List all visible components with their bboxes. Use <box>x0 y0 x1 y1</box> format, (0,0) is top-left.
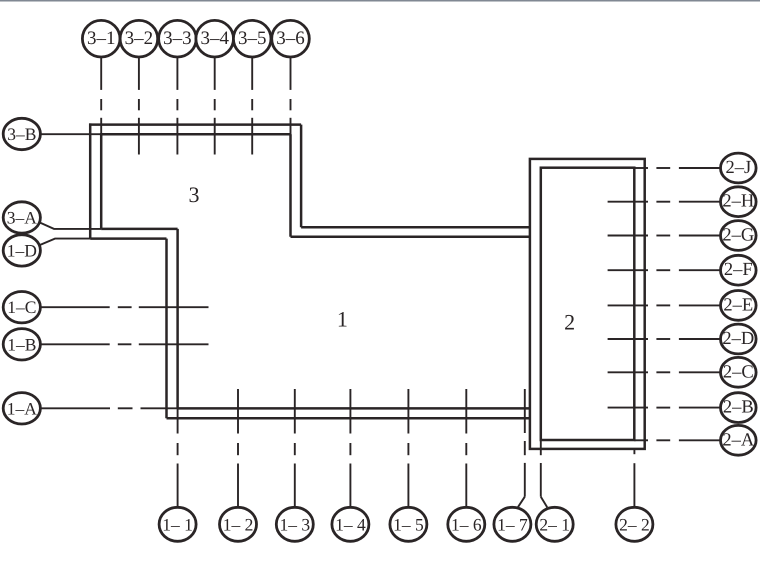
wall: region3 inner top <box>100 133 291 136</box>
svg-text:2–B: 2–B <box>723 398 754 418</box>
svg-text:2–C: 2–C <box>723 362 754 382</box>
svg-text:2–F: 2–F <box>724 260 753 280</box>
wall: step lower line <box>90 237 166 240</box>
axis bubble 1-B <box>3 329 40 360</box>
svg-text:3–B: 3–B <box>7 124 36 144</box>
svg-text:2–D: 2–D <box>722 329 754 349</box>
svg-text:3–2: 3–2 <box>125 28 154 49</box>
axis bubble 1-A <box>3 393 40 424</box>
axis line 2-A <box>634 439 648 441</box>
axis bubble 3-3 <box>159 20 197 57</box>
axis line 1-1 <box>177 408 179 434</box>
axis bubble 2-G <box>721 221 757 251</box>
axis line 3-3 <box>176 57 178 90</box>
svg-text:1: 1 <box>337 307 348 332</box>
svg-text:2– 1: 2– 1 <box>539 514 570 534</box>
axis bubble 3-4 <box>196 20 234 57</box>
axis bubble 2-A <box>721 425 757 455</box>
wall: region2 inner rectangle <box>541 168 635 440</box>
axis line 2-J <box>634 167 648 169</box>
axis line 3-6 <box>290 57 292 90</box>
svg-text:1– 1: 1– 1 <box>162 514 193 534</box>
axis line 2-D <box>608 338 648 340</box>
axis bubble 2-E <box>721 291 757 321</box>
svg-text:2–H: 2–H <box>722 192 754 212</box>
axis line 1-4 <box>349 389 351 434</box>
svg-text:1–D: 1–D <box>7 240 37 260</box>
svg-text:3–A: 3–A <box>7 208 38 228</box>
axis bubble 1-6 <box>448 507 485 541</box>
axis bubble 2-2 <box>616 507 653 541</box>
wall: region1 bottom lower <box>167 417 530 420</box>
svg-text:1– 5: 1– 5 <box>393 514 424 534</box>
svg-text:3–6: 3–6 <box>276 28 305 49</box>
wall: region1 left outer <box>165 239 168 419</box>
svg-text:1– 4: 1– 4 <box>335 514 366 534</box>
top gray bar <box>0 0 760 2</box>
wall: region3 right outer <box>300 125 303 228</box>
axis line 2-F <box>608 269 648 271</box>
axis bubble 3-5 <box>233 20 271 57</box>
axis line 1-5 <box>407 389 409 434</box>
axis bubble 3-6 <box>272 20 310 57</box>
axis line 2-G <box>608 235 648 237</box>
svg-text:1– 2: 1– 2 <box>223 514 254 534</box>
wall: region3 inner left <box>100 133 103 229</box>
axis line 3-2 <box>138 57 140 90</box>
axis bubble 2-1 <box>536 507 573 541</box>
svg-text:2: 2 <box>564 310 575 335</box>
axis leader 3-A <box>38 222 102 229</box>
axis line 3-B <box>40 133 101 135</box>
svg-text:2– 2: 2– 2 <box>619 514 650 534</box>
wall: region3 outer top <box>89 123 301 126</box>
axis bubble 1-2 <box>220 507 257 541</box>
axis line 1-2 <box>237 389 239 434</box>
wall: region1 bottom upper <box>178 407 530 410</box>
svg-text:1– 3: 1– 3 <box>279 514 310 534</box>
axis line 3-4 <box>214 57 216 90</box>
axis line 1-3 <box>294 389 296 434</box>
axis line 2-B <box>608 407 648 409</box>
axis bubble 2-J <box>721 153 757 183</box>
axis bubble 1-3 <box>276 507 313 541</box>
axis bubble 3-B <box>3 118 40 149</box>
axis bubble 2-F <box>721 255 757 285</box>
axis line 2-C <box>608 371 648 373</box>
axis line 2-E <box>608 304 648 306</box>
axis line 2-H <box>608 201 648 203</box>
axis line 1-7 <box>524 389 526 433</box>
axis bubble 2-C <box>721 357 757 387</box>
svg-text:1–A: 1–A <box>7 398 38 418</box>
axis line 1-C <box>40 306 109 308</box>
svg-text:2–J: 2–J <box>725 158 751 178</box>
wall: region3 outer left <box>89 123 92 238</box>
axis bubble 1-4 <box>332 507 369 541</box>
axis line 1-6 <box>465 389 467 434</box>
axis line 2-2 <box>633 449 635 454</box>
axis bubble 3-1 <box>82 20 120 57</box>
wall: region3 right inner <box>289 134 292 237</box>
axis bubble 1-5 <box>390 507 427 541</box>
wall: region1 left inner <box>176 229 179 409</box>
axis bubble 1-1 <box>159 507 196 541</box>
axis line 3-1 <box>100 57 102 90</box>
svg-text:3: 3 <box>189 182 200 207</box>
axis bubble 2-D <box>721 324 757 354</box>
wall: region1 top upper <box>301 226 529 229</box>
axis line 1-B <box>40 343 109 345</box>
svg-text:3–1: 3–1 <box>87 28 116 49</box>
wall: region2 outer rectangle <box>530 159 645 449</box>
svg-text:3–5: 3–5 <box>238 28 267 49</box>
axis bubble 3-A <box>3 202 40 233</box>
wall: region1 top lower <box>291 236 530 239</box>
axis line 3-5 <box>251 57 253 90</box>
axis line 2-1 <box>540 441 542 456</box>
wall: step upper line <box>101 228 177 231</box>
axis bubble 3-2 <box>120 20 158 57</box>
svg-text:2–G: 2–G <box>722 226 754 246</box>
axis leader 1-D <box>38 239 91 246</box>
svg-text:2–E: 2–E <box>723 295 753 315</box>
axis line 1-A <box>40 407 110 409</box>
svg-text:1– 6: 1– 6 <box>451 514 482 534</box>
svg-text:2–A: 2–A <box>722 430 755 450</box>
axis bubble 1-7 <box>494 507 531 541</box>
axis bubble 1-C <box>3 292 40 323</box>
axis bubble 2-B <box>721 393 757 423</box>
axis bubble 1-D <box>3 235 40 266</box>
svg-text:1– 7: 1– 7 <box>497 514 528 534</box>
svg-text:3–4: 3–4 <box>200 28 229 49</box>
svg-text:1–B: 1–B <box>7 334 36 354</box>
svg-text:1–C: 1–C <box>7 297 36 317</box>
svg-text:3–3: 3–3 <box>163 28 192 49</box>
axis bubble 2-H <box>721 187 757 217</box>
